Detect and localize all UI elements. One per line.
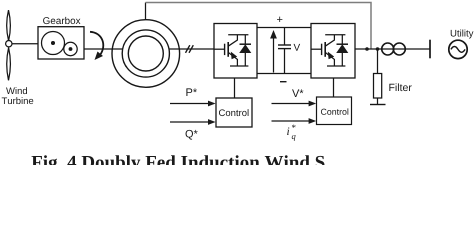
wire stator stub up bbox=[145, 3, 147, 20]
arrow iq* input bbox=[272, 118, 317, 124]
gearbox box bbox=[38, 27, 84, 59]
wind turbine blade top bbox=[7, 10, 11, 41]
arrow P* input bbox=[170, 101, 216, 107]
wind turbine hub bbox=[6, 41, 12, 47]
label Turbine bbox=[2, 97, 34, 104]
wire converter2 to control2 bbox=[333, 78, 335, 97]
label Utility bbox=[451, 30, 474, 39]
label iq* reference star bbox=[292, 125, 296, 128]
label Gearbox bbox=[43, 17, 80, 24]
generator inner circle bbox=[128, 36, 163, 71]
IGBT Q2 with diode D2 bbox=[311, 35, 348, 66]
label P* reference bbox=[186, 88, 197, 96]
control box 2 bbox=[317, 97, 352, 125]
label V dc-link voltage bbox=[294, 44, 301, 51]
label iq* reference i bbox=[287, 127, 289, 135]
wire filter branch bbox=[377, 49, 379, 74]
wire gearbox to generator bbox=[84, 48, 123, 50]
dc voltage arrow bbox=[270, 30, 277, 73]
label iq* reference q bbox=[292, 135, 296, 141]
generator DFIG outer circle bbox=[112, 20, 180, 88]
converter U1 box bbox=[214, 24, 257, 79]
rotation arrow bbox=[90, 32, 103, 60]
arrow V* input bbox=[272, 101, 317, 107]
transformer T1 bbox=[382, 43, 394, 55]
converter U2 box bbox=[311, 24, 355, 79]
gear wheel large bbox=[42, 32, 65, 55]
filter terminal bar bbox=[370, 104, 386, 106]
caption Fig. 4 Doubly Fed Induction Wind System bbox=[32, 155, 325, 172]
label minus bbox=[280, 81, 287, 82]
control box 1 bbox=[216, 98, 252, 127]
utility AC source bbox=[449, 40, 467, 58]
IGBT Q1 with diode D1 bbox=[214, 35, 251, 66]
wire stator top rail (gray) bbox=[146, 3, 372, 50]
wind turbine blade bottom bbox=[7, 48, 11, 81]
label V* reference bbox=[292, 89, 303, 97]
three-phase slash marks bbox=[186, 45, 194, 53]
dc link top rail bbox=[257, 27, 311, 29]
gear wheel small bbox=[64, 42, 77, 55]
wire converter1 to control1 bbox=[234, 78, 236, 98]
bus bar bbox=[429, 40, 431, 59]
capacitor C bbox=[278, 28, 291, 74]
label Wind bbox=[6, 87, 27, 94]
wire shaft turbine to gearbox bbox=[12, 43, 38, 45]
wire rotor to converter 1 bbox=[169, 48, 214, 50]
label Control 1 bbox=[219, 109, 249, 116]
wire converter 2 output bbox=[355, 48, 430, 50]
label Control 2 bbox=[321, 108, 348, 114]
node junction 2 bbox=[376, 47, 380, 51]
label Q* reference bbox=[186, 130, 198, 140]
arrow Q* input bbox=[170, 119, 216, 125]
label plus bbox=[277, 17, 282, 22]
node junction 1 bbox=[365, 47, 369, 51]
generator middle circle bbox=[122, 30, 169, 77]
filter resistor bbox=[374, 74, 382, 99]
label Filter bbox=[389, 83, 411, 91]
dc link bottom rail bbox=[257, 73, 311, 75]
